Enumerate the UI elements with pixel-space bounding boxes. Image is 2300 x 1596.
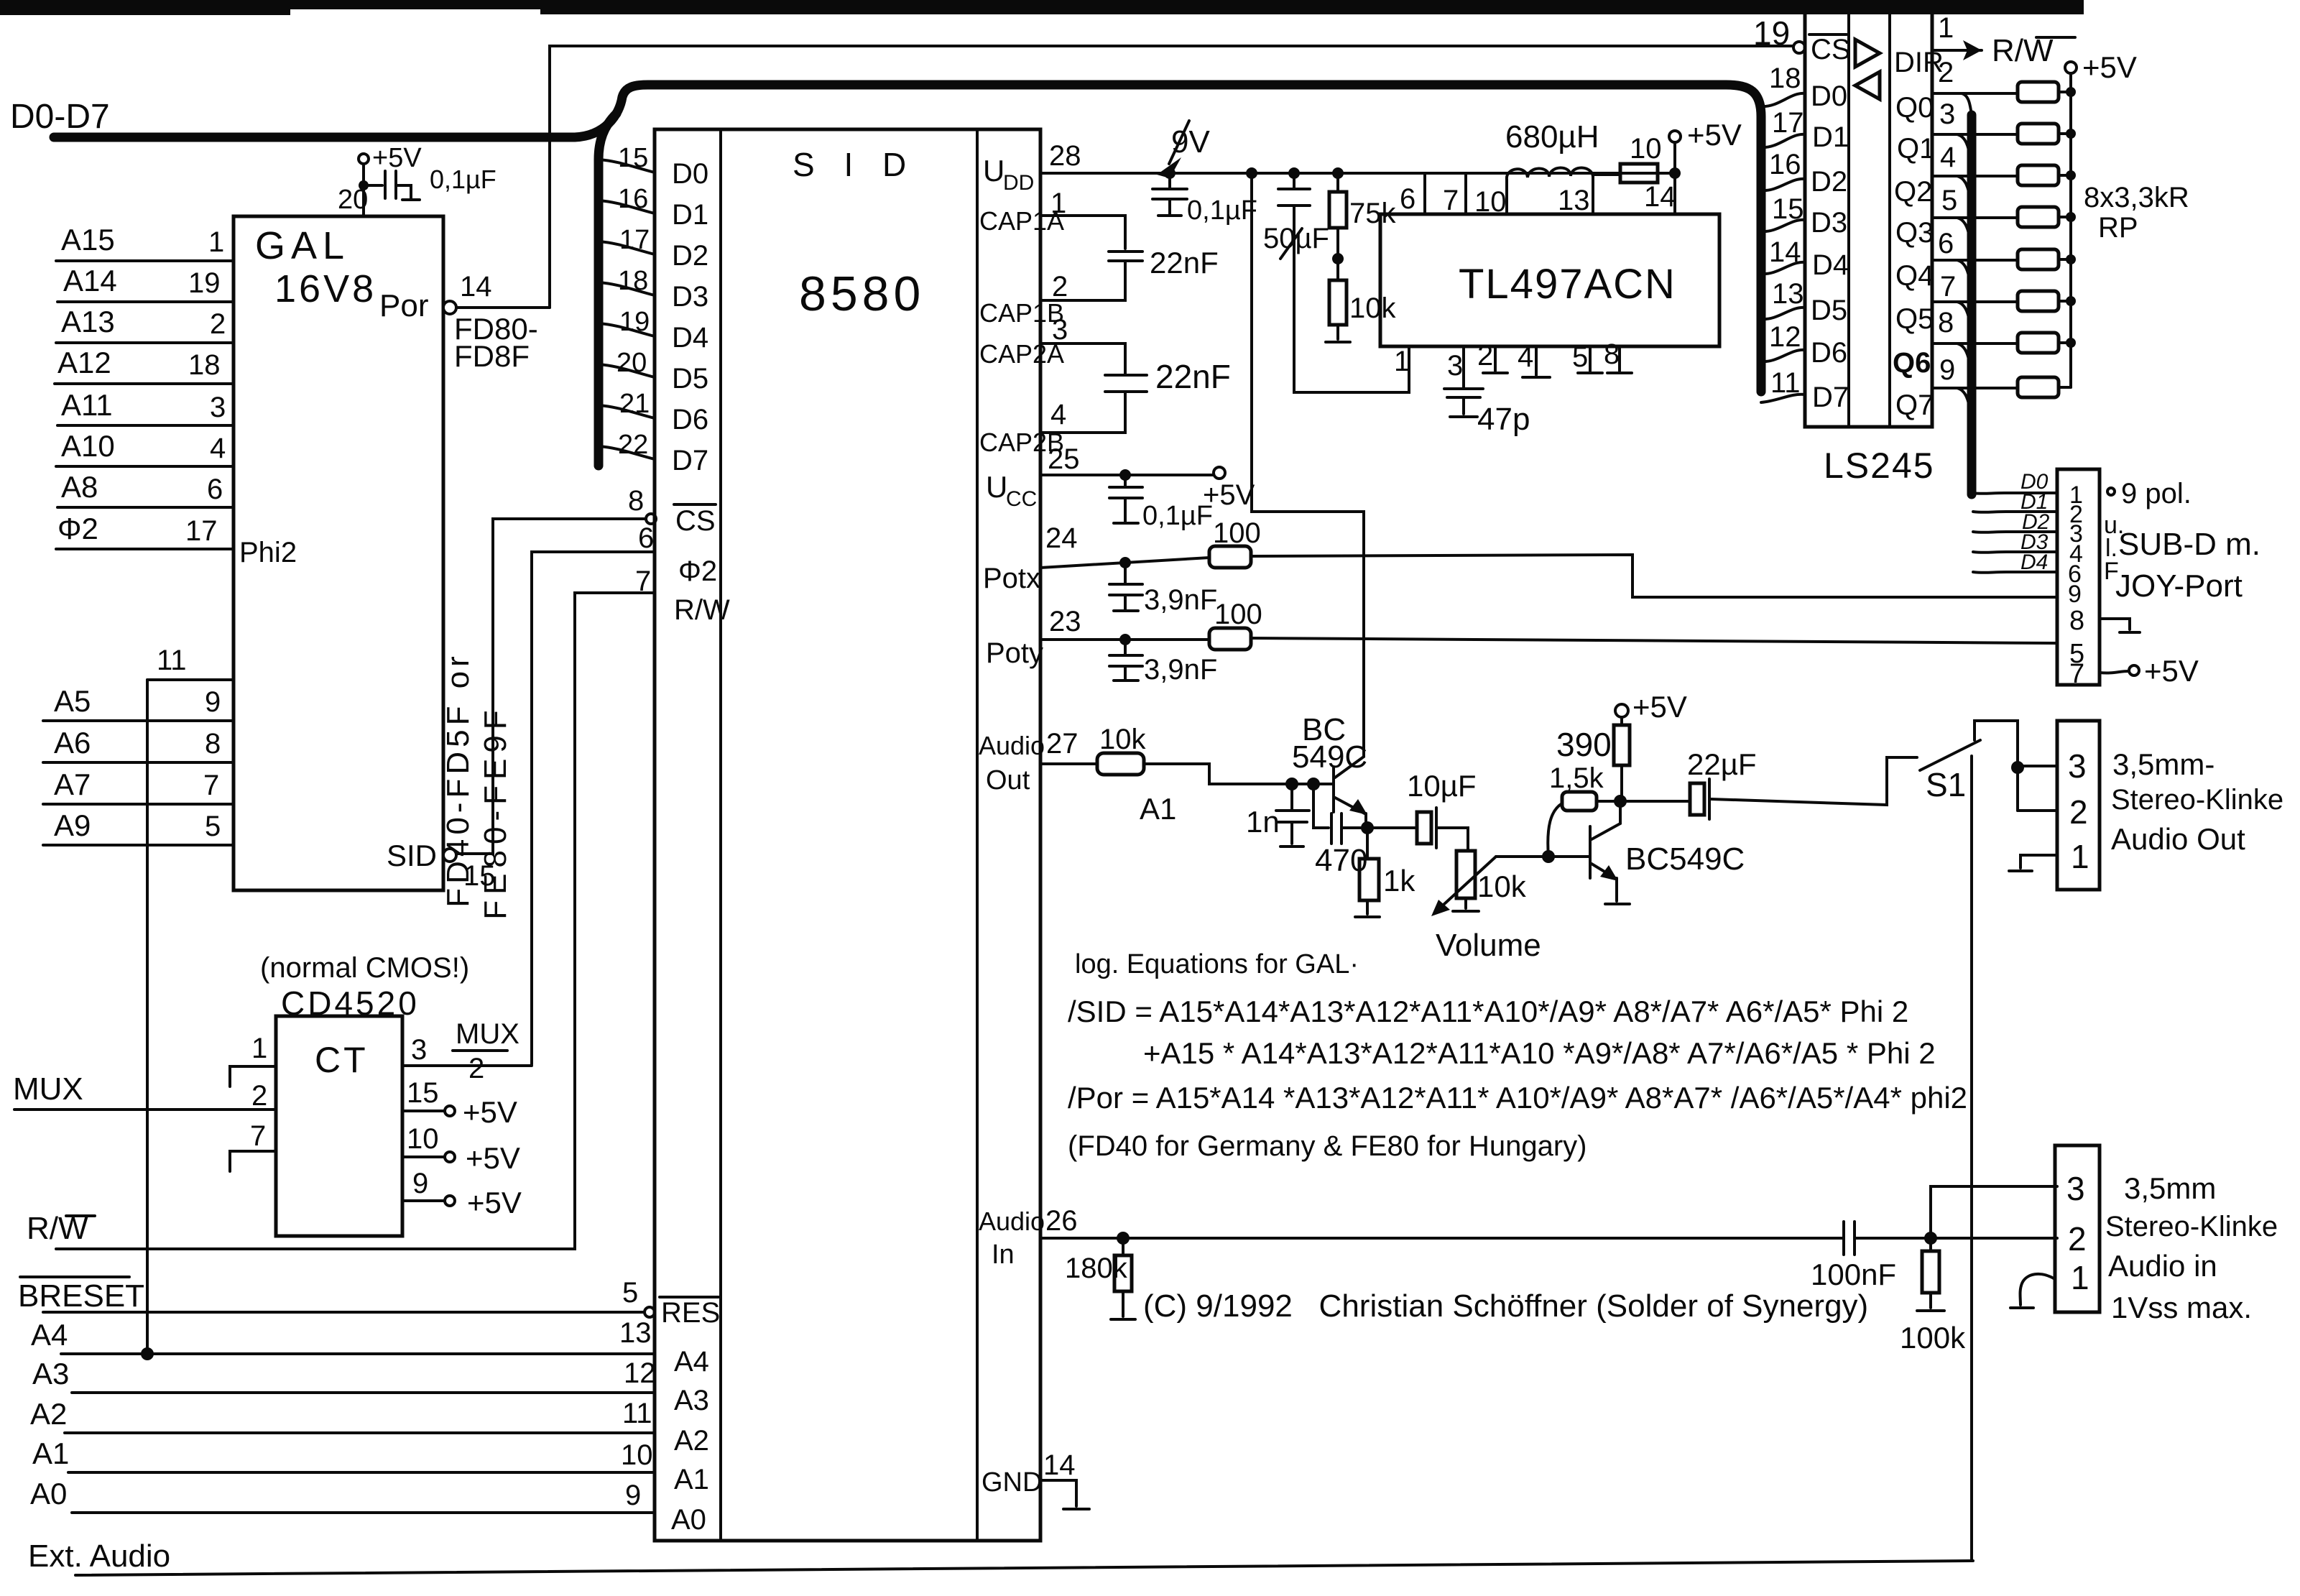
svg-text:15: 15 — [407, 1077, 439, 1109]
svg-text:8: 8 — [1938, 307, 1954, 338]
svg-text:8: 8 — [1604, 338, 1620, 370]
svg-text:Volume: Volume — [1436, 928, 1541, 963]
svg-text:19: 19 — [188, 267, 221, 299]
svg-text:7: 7 — [203, 770, 219, 801]
svg-text:3: 3 — [1052, 314, 1068, 346]
svg-text:MUX: MUX — [13, 1071, 83, 1107]
svg-text:+5V: +5V — [2144, 654, 2199, 688]
svg-text:1: 1 — [208, 226, 224, 258]
svg-text:Φ2: Φ2 — [678, 555, 717, 587]
svg-text:A1: A1 — [1140, 792, 1176, 826]
svg-text:D4: D4 — [1812, 249, 1849, 281]
svg-text:Q4: Q4 — [1895, 260, 1934, 292]
svg-text:18: 18 — [618, 266, 648, 296]
svg-text:26: 26 — [1045, 1205, 1078, 1237]
svg-text:A7: A7 — [54, 767, 91, 801]
svg-text:CC: CC — [1006, 487, 1037, 511]
svg-text:D4: D4 — [672, 322, 708, 354]
svg-text:BRESET: BRESET — [18, 1278, 144, 1314]
svg-text:RP: RP — [2098, 212, 2138, 244]
svg-text:17: 17 — [619, 225, 650, 255]
svg-text:In: In — [992, 1240, 1015, 1270]
svg-text:S I D: S I D — [793, 146, 916, 183]
svg-text:Φ2: Φ2 — [57, 512, 98, 545]
svg-text:A0: A0 — [671, 1504, 706, 1536]
svg-text:9: 9 — [625, 1480, 641, 1511]
svg-text:1n: 1n — [1246, 805, 1280, 839]
svg-text:10k: 10k — [1477, 870, 1527, 903]
svg-text:RES: RES — [661, 1297, 720, 1329]
svg-text:19: 19 — [619, 307, 650, 337]
svg-text:3,5mm: 3,5mm — [2124, 1171, 2216, 1205]
svg-text:1: 1 — [2071, 1259, 2089, 1296]
svg-text:8: 8 — [2069, 606, 2084, 636]
svg-text:2: 2 — [1938, 57, 1954, 88]
svg-text:13: 13 — [619, 1317, 652, 1349]
svg-text:7: 7 — [2069, 659, 2084, 689]
svg-text:D7: D7 — [672, 445, 708, 476]
svg-text:(normal CMOS!): (normal CMOS!) — [260, 952, 469, 984]
svg-text:14: 14 — [1043, 1449, 1076, 1481]
svg-text:5: 5 — [1572, 341, 1588, 373]
svg-text:A5: A5 — [54, 684, 91, 718]
svg-text:20: 20 — [338, 185, 368, 215]
svg-text:DD: DD — [1003, 171, 1034, 195]
svg-text:D2: D2 — [672, 240, 708, 272]
svg-text:2: 2 — [2069, 793, 2088, 831]
svg-text:U: U — [986, 470, 1007, 504]
svg-text:A0: A0 — [30, 1477, 67, 1510]
svg-text:24: 24 — [1045, 522, 1078, 554]
svg-text:FE80-FE9F: FE80-FE9F — [478, 704, 513, 919]
svg-text:6: 6 — [638, 522, 654, 554]
svg-text:2: 2 — [468, 1053, 484, 1084]
svg-text:D3: D3 — [1811, 207, 1847, 239]
svg-text:Phi2: Phi2 — [239, 537, 297, 568]
svg-text:6: 6 — [207, 474, 223, 505]
svg-text:22: 22 — [618, 430, 648, 460]
svg-text:1Vss max.: 1Vss max. — [2111, 1291, 2252, 1324]
svg-text:D7: D7 — [1812, 382, 1849, 413]
svg-text:4: 4 — [1518, 341, 1533, 373]
svg-text:Audio: Audio — [979, 1207, 1045, 1236]
svg-text:8x3,3kR: 8x3,3kR — [2084, 182, 2189, 213]
svg-text:TL497ACN: TL497ACN — [1459, 261, 1676, 308]
svg-text:4: 4 — [210, 433, 226, 464]
svg-text:SID: SID — [387, 839, 437, 872]
svg-text:4: 4 — [1050, 399, 1066, 430]
svg-text:4: 4 — [1940, 142, 1956, 173]
svg-text:CS: CS — [1811, 34, 1851, 65]
svg-text:100: 100 — [1213, 517, 1261, 549]
svg-text:SUB-D m.: SUB-D m. — [2118, 527, 2260, 562]
svg-text:3: 3 — [411, 1034, 427, 1066]
svg-text:Por: Por — [379, 288, 428, 323]
svg-text:+A15 * A14*A13*A12*A11*A10 *A9: +A15 * A14*A13*A12*A11*A10 *A9*/A8* A7*/… — [1143, 1036, 1936, 1070]
svg-text:MUX: MUX — [456, 1018, 519, 1050]
svg-text:3: 3 — [2066, 1170, 2085, 1207]
svg-text:17: 17 — [185, 515, 218, 547]
svg-text:A12: A12 — [57, 346, 111, 379]
svg-text:9: 9 — [412, 1168, 428, 1199]
svg-text:A2: A2 — [30, 1397, 67, 1431]
svg-text:GND: GND — [982, 1467, 1042, 1498]
svg-text:A2: A2 — [674, 1425, 709, 1457]
svg-text:10k: 10k — [1099, 724, 1146, 755]
svg-text:5: 5 — [205, 811, 221, 842]
svg-text:Q3: Q3 — [1895, 217, 1934, 249]
svg-text:LS245: LS245 — [1824, 446, 1935, 486]
svg-text:7: 7 — [1443, 185, 1459, 216]
svg-text:18: 18 — [188, 349, 221, 381]
svg-text:D5: D5 — [672, 363, 708, 395]
svg-text:1k: 1k — [1383, 864, 1415, 898]
svg-text:Out: Out — [986, 765, 1030, 795]
svg-text:23: 23 — [1049, 606, 1081, 637]
svg-text:Q6: Q6 — [1893, 347, 1931, 379]
svg-text:14: 14 — [1644, 181, 1676, 213]
svg-text:22µF: 22µF — [1687, 747, 1757, 781]
svg-text:+5V: +5V — [2082, 50, 2137, 84]
svg-text:Audio: Audio — [979, 731, 1045, 760]
svg-text:3: 3 — [2068, 747, 2087, 785]
svg-text:25: 25 — [1048, 443, 1080, 475]
svg-text:Audio in: Audio in — [2108, 1249, 2217, 1283]
svg-text:Q5: Q5 — [1895, 303, 1934, 335]
svg-text:8: 8 — [205, 728, 221, 760]
svg-text:U: U — [983, 154, 1004, 188]
svg-text:10: 10 — [1474, 186, 1507, 218]
svg-text:+5V: +5V — [1632, 690, 1687, 724]
svg-text:D1: D1 — [672, 199, 708, 231]
svg-text:9: 9 — [205, 686, 221, 718]
svg-text:A14: A14 — [63, 264, 117, 297]
svg-text:A15: A15 — [61, 223, 115, 257]
svg-text:390: 390 — [1556, 726, 1612, 763]
svg-text:100nF: 100nF — [1811, 1258, 1896, 1291]
svg-text:16: 16 — [1769, 149, 1801, 180]
svg-text:8: 8 — [628, 485, 644, 517]
svg-text:75k: 75k — [1349, 198, 1396, 229]
svg-text:D5: D5 — [1811, 295, 1847, 326]
svg-text:A1: A1 — [32, 1436, 69, 1470]
svg-text:16V8: 16V8 — [274, 267, 377, 310]
svg-text:Potx: Potx — [983, 563, 1040, 594]
svg-text:Q2: Q2 — [1894, 176, 1932, 208]
svg-text:JOY-Port: JOY-Port — [2115, 568, 2243, 604]
svg-text:6: 6 — [1400, 183, 1415, 215]
svg-text:log. Equations for GAL·: log. Equations for GAL· — [1075, 949, 1359, 979]
svg-text:(FD40 for Germany & FE80 for H: (FD40 for Germany & FE80 for Hungary) — [1068, 1130, 1587, 1162]
svg-text:549C: 549C — [1292, 739, 1367, 775]
svg-text:A3: A3 — [32, 1357, 69, 1390]
svg-text:Stereo-Klinke: Stereo-Klinke — [2111, 784, 2283, 816]
svg-text:8580: 8580 — [799, 267, 925, 321]
svg-text:11: 11 — [622, 1398, 652, 1429]
svg-text:10k: 10k — [1349, 292, 1396, 324]
svg-text:680µH: 680µH — [1505, 119, 1599, 154]
svg-text:1: 1 — [1938, 12, 1954, 44]
svg-text:18: 18 — [1769, 63, 1801, 94]
svg-text:D4: D4 — [2020, 550, 2048, 574]
svg-text:3: 3 — [210, 392, 226, 423]
svg-text:A10: A10 — [61, 429, 115, 463]
svg-text:D0-D7: D0-D7 — [10, 98, 110, 136]
svg-text:19: 19 — [1753, 14, 1790, 52]
svg-text:14: 14 — [460, 271, 492, 303]
svg-text:D0: D0 — [672, 158, 708, 190]
svg-text:D1: D1 — [1812, 121, 1849, 153]
svg-text:0,1µF: 0,1µF — [1142, 501, 1213, 531]
svg-text:13: 13 — [1772, 278, 1804, 310]
svg-text:0,1µF: 0,1µF — [430, 165, 497, 194]
svg-text:CS: CS — [675, 505, 716, 537]
svg-text:7: 7 — [250, 1120, 266, 1152]
svg-text:D6: D6 — [672, 404, 708, 435]
svg-text:5: 5 — [1941, 185, 1957, 216]
svg-text:10: 10 — [407, 1123, 439, 1155]
svg-text:Poty: Poty — [986, 637, 1043, 669]
svg-text:+5V: +5V — [372, 143, 422, 173]
svg-text:S1: S1 — [1926, 766, 1966, 803]
svg-text:A3: A3 — [674, 1385, 709, 1416]
svg-text:1: 1 — [251, 1033, 267, 1064]
svg-text:Ext. Audio: Ext. Audio — [28, 1539, 170, 1574]
svg-text:/Por = A15*A14 *A13*A12*A11* A: /Por = A15*A14 *A13*A12*A11* A10*/A9* A8… — [1068, 1081, 1967, 1115]
svg-text:21: 21 — [619, 389, 650, 419]
svg-text:10: 10 — [1630, 133, 1662, 165]
svg-text:FD40-FD5F or: FD40-FD5F or — [440, 652, 476, 908]
svg-text:(C) 9/1992 Christian Schöffn: (C) 9/1992 Christian Schöffner (Solder o… — [1143, 1288, 1868, 1324]
svg-text:100k: 100k — [1900, 1321, 1966, 1355]
svg-text:3,9nF: 3,9nF — [1144, 584, 1217, 616]
svg-text:22nF: 22nF — [1155, 358, 1231, 395]
svg-text:D0: D0 — [1811, 80, 1847, 112]
svg-text:3: 3 — [1939, 98, 1955, 130]
svg-text:Q7: Q7 — [1895, 389, 1934, 421]
svg-text:2: 2 — [210, 308, 226, 340]
svg-text:2: 2 — [251, 1080, 267, 1112]
svg-text:47p: 47p — [1477, 402, 1530, 437]
svg-text:22nF: 22nF — [1150, 246, 1219, 280]
svg-text:13: 13 — [1558, 185, 1590, 216]
svg-text:D2: D2 — [1811, 166, 1847, 198]
svg-text:A6: A6 — [54, 726, 91, 760]
svg-text:A13: A13 — [61, 305, 115, 338]
svg-text:FD8F: FD8F — [454, 339, 530, 373]
svg-text:10: 10 — [621, 1439, 653, 1471]
svg-text:1: 1 — [2071, 838, 2089, 875]
svg-text:9: 9 — [1939, 354, 1955, 386]
svg-text:Q1: Q1 — [1897, 133, 1935, 165]
svg-text:9 pol.: 9 pol. — [2121, 478, 2192, 509]
svg-text:7: 7 — [1940, 271, 1956, 303]
svg-text:12: 12 — [1769, 321, 1801, 353]
svg-text:+5V: +5V — [466, 1141, 520, 1175]
svg-text:20: 20 — [616, 348, 647, 378]
svg-text:A1: A1 — [674, 1464, 709, 1495]
svg-text:180k: 180k — [1065, 1253, 1128, 1284]
svg-text:A9: A9 — [54, 808, 91, 842]
svg-text:27: 27 — [1046, 728, 1079, 760]
svg-text:9V: 9V — [1171, 124, 1210, 160]
svg-text:2: 2 — [1052, 271, 1068, 303]
svg-text:10µF: 10µF — [1407, 769, 1477, 803]
svg-text:3,9nF: 3,9nF — [1144, 654, 1217, 686]
svg-text:A4: A4 — [674, 1346, 709, 1378]
svg-text:CT: CT — [315, 1040, 369, 1080]
svg-text:1,5k: 1,5k — [1549, 762, 1604, 794]
svg-text:0,1µF: 0,1µF — [1187, 195, 1257, 226]
svg-text:BC549C: BC549C — [1625, 841, 1745, 877]
svg-text:A11: A11 — [61, 388, 113, 422]
svg-text:Stereo-Klinke: Stereo-Klinke — [2105, 1211, 2278, 1242]
svg-text:11: 11 — [157, 645, 187, 676]
svg-text:3: 3 — [1447, 350, 1463, 382]
svg-text:R/W: R/W — [674, 594, 730, 626]
svg-text:7: 7 — [635, 566, 651, 597]
svg-text:A8: A8 — [61, 470, 98, 504]
svg-text:28: 28 — [1049, 140, 1081, 172]
svg-text:100: 100 — [1214, 599, 1262, 630]
svg-text:1: 1 — [1394, 346, 1410, 377]
svg-text:2: 2 — [1477, 340, 1493, 372]
svg-text:5: 5 — [622, 1277, 638, 1309]
svg-text:+5V: +5V — [463, 1095, 517, 1129]
svg-text:D3: D3 — [672, 281, 708, 313]
svg-text:2: 2 — [2068, 1220, 2087, 1258]
svg-text:D6: D6 — [1811, 337, 1847, 369]
svg-text:+5V: +5V — [467, 1186, 522, 1219]
svg-text:Audio Out: Audio Out — [2111, 822, 2245, 856]
svg-text:16: 16 — [618, 184, 648, 214]
svg-text:9: 9 — [2068, 581, 2082, 608]
svg-text:3,5mm-: 3,5mm- — [2112, 747, 2214, 781]
svg-text:+5V: +5V — [1687, 118, 1742, 152]
svg-text:15: 15 — [618, 143, 648, 173]
svg-text:Q0: Q0 — [1895, 92, 1934, 124]
svg-text:A4: A4 — [31, 1318, 68, 1352]
svg-text:12: 12 — [624, 1357, 656, 1389]
svg-text:/SID = A15*A14*A13*A12*A11*A10: /SID = A15*A14*A13*A12*A11*A10*/A9* A8*/… — [1068, 995, 1908, 1028]
svg-text:GAL: GAL — [255, 224, 350, 267]
svg-text:6: 6 — [1938, 228, 1954, 259]
